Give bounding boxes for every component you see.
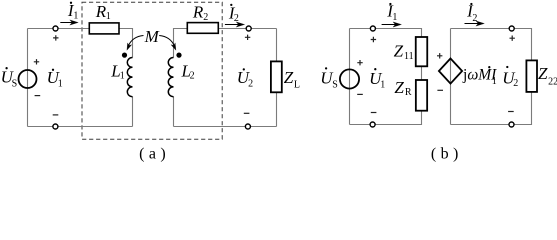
wire dependent-source rail — [450, 29, 452, 125]
svg-text:R: R — [405, 87, 412, 98]
U2 - sign (b) — [508, 111, 514, 113]
svg-text:1: 1 — [120, 71, 125, 82]
svg-text:Z: Z — [538, 64, 548, 83]
M right curved arrow — [159, 36, 174, 46]
svg-text:2: 2 — [203, 12, 208, 23]
dashed coupling box — [82, 2, 222, 139]
U1 - sign — [53, 114, 59, 116]
svg-text:2: 2 — [190, 71, 195, 82]
U1 - sign (b) — [371, 112, 377, 114]
svg-text:2: 2 — [513, 78, 518, 89]
wire L1 bottom leg — [132, 97, 134, 127]
source US circle — [19, 70, 37, 88]
current I1 arrow (b) — [382, 24, 396, 26]
load ZL — [271, 61, 282, 92]
svg-text:11: 11 — [404, 51, 414, 62]
current I2 arrow (b) — [465, 23, 479, 25]
svg-text:Z: Z — [284, 68, 294, 87]
wire left rail — [27, 29, 29, 127]
dot mark L1 — [122, 53, 127, 58]
svg-text:2: 2 — [472, 13, 477, 24]
wire right rail lower — [276, 92, 278, 126]
wire L2 bottom leg — [173, 97, 175, 127]
U2 + sign — [245, 35, 250, 40]
source - sign (b) — [357, 93, 363, 95]
svg-text:( b ): ( b ) — [431, 146, 459, 163]
current I1 arrow — [60, 22, 72, 24]
impedance Z11 — [416, 37, 428, 66]
wire b-right-loop bottom — [451, 92, 532, 125]
resistor R2 — [187, 23, 218, 34]
dot mark L2 — [176, 53, 181, 58]
impedance Z22 — [526, 60, 537, 92]
terminal node b-bottom-right — [509, 122, 514, 127]
dependent source + sign — [437, 53, 442, 58]
svg-text:1: 1 — [492, 76, 497, 87]
svg-text:S: S — [12, 79, 18, 90]
terminal node b-bottom-left — [370, 122, 375, 127]
U1 + sign (b) — [371, 37, 376, 42]
terminal node a-bottom-right — [245, 124, 250, 129]
svg-text:Z: Z — [394, 78, 404, 97]
svg-text:1: 1 — [392, 12, 397, 23]
svg-text:Z: Z — [394, 42, 404, 61]
svg-text:22: 22 — [548, 77, 557, 88]
svg-text:2: 2 — [234, 13, 239, 24]
wire right rail upper — [276, 29, 278, 62]
inductor L2 — [168, 58, 173, 97]
terminal node b-top-right — [509, 26, 514, 31]
terminal node a-top-left — [53, 26, 58, 31]
wire L2 top to R2 — [174, 29, 188, 58]
wire top-left (source to R1) — [28, 28, 90, 30]
svg-text:R: R — [192, 2, 204, 21]
source + sign — [34, 59, 39, 64]
source + sign (b) — [357, 60, 362, 65]
source - sign — [35, 95, 41, 97]
current I2 arrow — [225, 24, 239, 26]
wire b-left rail — [349, 29, 351, 125]
wire bottom-left — [28, 126, 133, 128]
wire b-right-loop top — [451, 29, 532, 61]
svg-text:1: 1 — [73, 10, 78, 21]
wire R1 to L1 top — [119, 29, 133, 58]
source US circle (b) — [340, 69, 359, 88]
svg-text:1: 1 — [380, 80, 385, 91]
wire R2 to right rail — [218, 28, 276, 30]
impedance ZR — [416, 80, 427, 111]
svg-text:1: 1 — [58, 79, 63, 90]
resistor R1 — [89, 23, 119, 34]
U2 + sign (b) — [510, 36, 515, 41]
svg-text:1: 1 — [106, 11, 111, 22]
wire b-left-loop top — [350, 29, 422, 38]
dependent source - sign — [437, 89, 443, 91]
svg-text:( a ): ( a ) — [139, 146, 166, 163]
dependent source diamond — [439, 59, 462, 84]
U2 - sign — [244, 112, 250, 114]
svg-text:2: 2 — [248, 79, 253, 90]
terminal node a-bottom-left — [53, 124, 58, 129]
svg-text:S: S — [332, 80, 338, 91]
svg-text:M: M — [144, 27, 160, 46]
svg-text:L: L — [294, 79, 300, 90]
terminal node b-top-left — [370, 26, 375, 31]
wire bottom-right — [174, 126, 277, 128]
terminal node a-top-right — [246, 26, 251, 31]
wire b-left-loop bottom — [350, 111, 422, 125]
wire between Z11 and ZR — [421, 66, 423, 80]
M left curved arrow — [128, 36, 143, 46]
inductor L1 — [127, 58, 132, 97]
U1 + sign — [53, 35, 58, 40]
